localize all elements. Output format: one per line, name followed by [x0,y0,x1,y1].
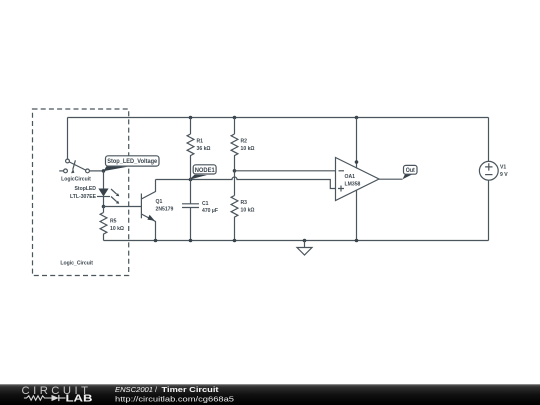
svg-text:36 kΩ: 36 kΩ [197,146,211,152]
svg-text:LAB: LAB [66,393,93,404]
svg-text:10 kΩ: 10 kΩ [110,226,124,232]
svg-text:/: / [155,385,157,394]
svg-text:OA1: OA1 [345,174,356,180]
capacitor C1 470 uF [182,180,199,241]
footer bar [0,384,540,405]
subcircuit dashed box Logic_Circuit [33,109,129,276]
junction R2 top [233,116,237,120]
junction op-amp V-/rail [355,239,359,243]
junction op-amp V+ rail [355,116,359,120]
footer title text [115,385,234,403]
svg-text:LogicCircuit: LogicCircuit [61,177,91,183]
svg-text:http://circuitlab.com/cg668a5: http://circuitlab.com/cg668a5 [115,394,234,403]
label V1 9 V [500,165,508,178]
wire switch common drop [67,118,69,160]
svg-text:NODE1: NODE1 [195,167,215,174]
wire op-amp V+ [356,118,358,169]
junction R1 top [189,116,193,120]
wire switch to LED node [89,170,103,172]
resistor R2 10 k [231,118,238,171]
svg-text:Stop_LED_Voltage: Stop_LED_Voltage [107,158,157,165]
svg-text:Q1: Q1 [156,199,163,205]
junction R3/rail [233,239,237,243]
wire bottom rail [104,240,489,242]
transistor Q1 2N5179 [141,180,155,241]
net flag Out [403,165,418,179]
label Logic_Circuit [60,261,93,267]
resistor R5 10 k [100,207,107,241]
ground [297,239,312,255]
logo CIRCUIT LAB [22,385,93,404]
svg-text:Logic_Circuit: Logic_Circuit [60,261,93,267]
pin dot op-amp V+ [355,160,359,164]
svg-text:10 kΩ: 10 kΩ [241,208,255,214]
resistor R3 10 k [231,171,238,241]
voltage source V1 9V [479,118,498,241]
svg-text:V1: V1 [500,165,506,171]
label R5 10 kOhm [110,219,124,233]
svg-text:9 V: 9 V [500,172,508,178]
svg-text:R2: R2 [241,139,248,145]
svg-text:R3: R3 [241,200,248,206]
label R3 10 kOhm [241,200,255,214]
svg-text:StopLED: StopLED [74,186,96,192]
op-amp OA1 LM358 [336,158,380,201]
wire NODE1 line with hop over R3 [156,177,336,189]
svg-text:R5: R5 [110,219,117,225]
svg-text:10 kΩ: 10 kΩ [241,146,255,152]
net flag Stop_LED_Voltage [104,156,160,171]
wire base [104,206,142,208]
svg-text:LM358: LM358 [345,182,361,188]
svg-text:Out: Out [406,167,416,174]
label Q1 2N5179 [156,199,174,213]
label OA1 LM358 [345,174,361,188]
wire inverting input [235,170,336,172]
junction node Stop_LED_Voltage [102,169,106,173]
resistor R1 36 k [187,118,194,180]
junction emitter/rail [154,239,158,243]
junction NODE1 [189,178,193,182]
wire op-amp output [379,178,403,180]
svg-text:C1: C1 [202,201,209,207]
label R1 36 kOhm [197,139,211,153]
svg-text:ENSC2001: ENSC2001 [115,385,153,394]
junction C1/rail [189,239,193,243]
svg-text:R1: R1 [197,139,204,145]
svg-text:LTL-307EE: LTL-307EE [70,194,97,200]
junction LED/R5/base [102,205,106,209]
LED D1 StopLED LTL-307EE [97,171,119,207]
wire op-amp V- [356,190,358,241]
net flag NODE1 [189,165,216,180]
label C1 470 uF [202,201,218,214]
switch SW1 LogicCircuit [59,159,89,173]
junction R2/R3 [233,169,237,173]
label R2 10 kOhm [241,139,255,153]
svg-text:Timer Circuit: Timer Circuit [162,385,220,394]
label StopLED LTL-307EE [70,186,97,200]
wire top rail [68,117,489,119]
svg-text:470 µF: 470 µF [202,208,218,214]
svg-text:2N5179: 2N5179 [156,206,174,212]
label LogicCircuit [61,177,91,183]
